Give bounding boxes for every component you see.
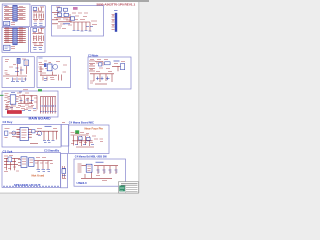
svg-text:C2 Key: C2 Key xyxy=(3,120,13,124)
svg-text:5800-A502T70-1P0 REV1.1: 5800-A502T70-1P0 REV1.1 xyxy=(97,2,136,6)
svg-text:USB3.0: USB3.0 xyxy=(77,181,88,185)
svg-text:C3 Main: C3 Main xyxy=(88,53,99,57)
svg-text:Not Used: Not Used xyxy=(32,174,45,178)
svg-text:C4 Mama Board MIC: C4 Mama Board MIC xyxy=(69,120,94,124)
svg-text:C4 Mama Bd MBL-USB SW: C4 Mama Bd MBL-USB SW xyxy=(75,155,108,158)
svg-text:C3 StandBy: C3 StandBy xyxy=(44,148,60,152)
svg-text:SPEAKER L/R OUT: SPEAKER L/R OUT xyxy=(14,183,41,187)
svg-text:MAIN BOARD: MAIN BOARD xyxy=(29,117,52,121)
svg-text:C3 Spk: C3 Spk xyxy=(3,149,13,153)
svg-text:Near Face Pin: Near Face Pin xyxy=(85,127,104,131)
